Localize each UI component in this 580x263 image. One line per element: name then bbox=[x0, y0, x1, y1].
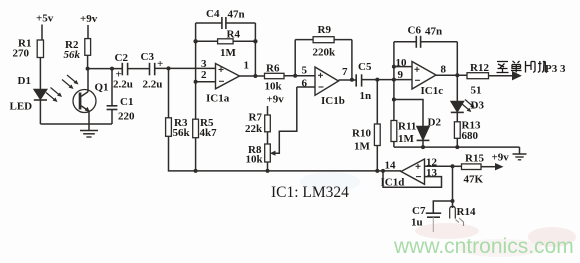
capacitor C5 bbox=[356, 74, 361, 86]
svg-text:D2: D2 bbox=[428, 117, 442, 129]
capacitor C6 bbox=[394, 36, 457, 48]
svg-text:D3: D3 bbox=[471, 100, 485, 112]
wire R6 to IC1b pin5 bbox=[284, 75, 315, 77]
wire R11 to lower rail bbox=[393, 142, 395, 148]
ground under Q1 bbox=[80, 124, 98, 137]
wire node to D3 bbox=[456, 75, 458, 101]
wire node to R10 bbox=[376, 80, 378, 124]
capacitor C2 bbox=[122, 63, 127, 76]
svg-text:R6: R6 bbox=[266, 63, 280, 75]
svg-text:C2: C2 bbox=[115, 52, 129, 64]
wire bottom-left rail bbox=[40, 123, 112, 125]
diode D1 (LED) bbox=[34, 90, 47, 101]
wire R9 left vertical bbox=[294, 40, 296, 76]
op-amp IC1d bbox=[401, 159, 425, 184]
svg-text:2: 2 bbox=[201, 69, 207, 81]
svg-text:Q1: Q1 bbox=[95, 82, 109, 94]
svg-text:R4: R4 bbox=[227, 29, 241, 41]
resistor R8 bbox=[265, 144, 271, 162]
wire pin6 step down to R8 bbox=[275, 87, 297, 153]
op-amp IC1a bbox=[216, 64, 240, 89]
svg-text:C1: C1 bbox=[120, 96, 133, 108]
resistor R9 bbox=[295, 37, 352, 43]
svg-text:IC1: LM324: IC1: LM324 bbox=[271, 184, 349, 201]
svg-text:D1: D1 bbox=[18, 75, 31, 87]
svg-text:7: 7 bbox=[342, 66, 348, 78]
wire IC1d pin12 input bbox=[425, 165, 453, 167]
wire R10 to bias rail bbox=[376, 146, 378, 171]
svg-text:47n: 47n bbox=[425, 26, 442, 38]
wire R2 to node A bbox=[87, 55, 89, 68]
wire feedback left vertical bbox=[195, 23, 197, 119]
wire IC1c output pin8 bbox=[436, 74, 467, 76]
svg-text:+9v: +9v bbox=[80, 13, 98, 25]
wire R13 to lower rail bbox=[456, 138, 458, 147]
resistor R12 bbox=[467, 73, 489, 79]
svg-text:C3: C3 bbox=[141, 51, 155, 63]
wire IC1c pin10 input bbox=[394, 66, 412, 68]
svg-text:2.2u: 2.2u bbox=[143, 79, 163, 91]
svg-text:+9v: +9v bbox=[492, 152, 510, 164]
wire IC1a output bbox=[240, 75, 265, 77]
wire R8 to bias rail bbox=[267, 162, 269, 171]
svg-text:10k: 10k bbox=[265, 81, 283, 93]
svg-text:47K: 47K bbox=[464, 174, 484, 186]
wire pin12 node down to C7/R14 bbox=[452, 166, 454, 208]
wire +5v stem bbox=[41, 25, 43, 41]
svg-text:C5: C5 bbox=[358, 61, 372, 73]
wire C6 right vertical bbox=[456, 42, 458, 75]
svg-text:R12: R12 bbox=[470, 62, 489, 74]
wire R9 right vertical bbox=[351, 40, 353, 80]
svg-text:1M: 1M bbox=[398, 133, 415, 145]
diode D2 bbox=[417, 127, 430, 148]
capacitor C7 bbox=[426, 213, 441, 232]
D3 emission arrows bbox=[462, 100, 475, 113]
svg-text:13: 13 bbox=[426, 167, 438, 179]
svg-text:680: 680 bbox=[462, 130, 479, 142]
wire D2 top rail bbox=[394, 100, 423, 127]
resistor R1 bbox=[37, 40, 43, 58]
svg-text:5: 5 bbox=[302, 65, 308, 77]
resistor R5 bbox=[193, 119, 199, 138]
svg-text:R11: R11 bbox=[398, 121, 416, 133]
wire R15 to +9v arrow bbox=[453, 163, 504, 170]
wire D3 to R13 bbox=[456, 112, 458, 121]
capacitor C1 bbox=[107, 69, 118, 124]
capacitor C3 bbox=[150, 63, 155, 76]
svg-text:+9v: +9v bbox=[267, 94, 285, 106]
svg-text:1: 1 bbox=[244, 60, 250, 72]
wire IC1d pin13 feedback loop bbox=[383, 171, 442, 187]
svg-text:IC1c: IC1c bbox=[421, 85, 444, 97]
svg-text:R9: R9 bbox=[318, 24, 332, 36]
wire R1 to D1 bbox=[39, 58, 41, 90]
resistor R11 bbox=[391, 121, 397, 142]
svg-text:IC1a: IC1a bbox=[206, 93, 230, 105]
svg-text:14: 14 bbox=[385, 160, 397, 172]
svg-text:9: 9 bbox=[398, 69, 404, 81]
svg-text:IC1d: IC1d bbox=[381, 177, 405, 189]
svg-text:270: 270 bbox=[13, 48, 30, 60]
wire R3 to bias rail bbox=[169, 136, 402, 171]
svg-text:56k: 56k bbox=[173, 127, 191, 139]
transistor Q1 photo arrows bbox=[62, 75, 79, 89]
svg-text:1M: 1M bbox=[220, 47, 237, 59]
scan color smudges bbox=[300, 172, 576, 257]
resistor R14 bbox=[450, 206, 464, 226]
R8 wiper arrow bbox=[270, 151, 276, 156]
wire C3 to IC1a pin3 bbox=[155, 67, 216, 69]
resistor R3 bbox=[166, 118, 172, 137]
diode D3 (LED) bbox=[451, 102, 464, 113]
wire C5 to IC1c pin9 bbox=[362, 79, 412, 81]
wire lower rail to ground bbox=[394, 146, 520, 148]
svg-text:R14: R14 bbox=[457, 206, 476, 218]
svg-text:1n: 1n bbox=[360, 90, 372, 102]
wire feedback right vertical bbox=[254, 23, 256, 76]
svg-text:+5v: +5v bbox=[36, 13, 54, 25]
svg-text:IC1b: IC1b bbox=[321, 95, 345, 107]
wire +9v stem bbox=[87, 25, 89, 39]
op-amp IC1c bbox=[412, 62, 436, 90]
LED D1 emission arrows bbox=[46, 88, 62, 103]
svg-text:4k7: 4k7 bbox=[200, 127, 218, 139]
resistor R7 bbox=[265, 115, 271, 132]
wire +9v stub to R7 bbox=[267, 106, 269, 115]
svg-text:2.2u: 2.2u bbox=[113, 79, 133, 91]
wire C7 branch bbox=[433, 201, 452, 213]
wire C2 to C3 bbox=[128, 68, 150, 70]
svg-text:C7: C7 bbox=[412, 205, 426, 217]
svg-text:6: 6 bbox=[302, 78, 308, 90]
wire D1 to bottom rail bbox=[39, 100, 41, 124]
svg-text:www.cntronics.com: www.cntronics.com bbox=[393, 235, 574, 258]
transistor Q1 bbox=[73, 69, 96, 124]
node label: to MCU P3.3 (chinese glyphs drawn) bbox=[497, 61, 548, 73]
svg-text:R10: R10 bbox=[352, 128, 371, 140]
resistor R15 bbox=[462, 164, 482, 170]
wire R12 to MCU arrow bbox=[489, 71, 522, 80]
wire C6 feedback left vertical bbox=[393, 42, 395, 121]
svg-text:+: + bbox=[157, 58, 163, 70]
wire IC1b pin6 input bbox=[297, 86, 315, 88]
resistor R6 bbox=[265, 73, 285, 78]
wire R7 to R8 bbox=[267, 132, 269, 144]
svg-text:C6: C6 bbox=[408, 25, 422, 37]
resistor R4 bbox=[196, 39, 256, 44]
resistor R10 bbox=[374, 124, 380, 146]
resistor R13 bbox=[454, 122, 460, 139]
capacitor C4 bbox=[196, 17, 256, 29]
svg-text:P3 3: P3 3 bbox=[545, 63, 566, 75]
svg-text:R7: R7 bbox=[249, 112, 263, 124]
wire main node row bbox=[88, 68, 123, 70]
svg-text:1M: 1M bbox=[354, 141, 371, 153]
svg-text:22k: 22k bbox=[245, 123, 263, 135]
wire node to R3 bbox=[168, 68, 170, 117]
svg-text:220k: 220k bbox=[313, 47, 337, 59]
svg-text:10: 10 bbox=[396, 57, 408, 69]
wire R5 to bias rail bbox=[195, 138, 197, 171]
svg-text:51: 51 bbox=[471, 85, 482, 97]
resistor R2 bbox=[85, 39, 91, 56]
svg-text:10k: 10k bbox=[246, 154, 264, 166]
svg-text:47n: 47n bbox=[228, 9, 245, 21]
wire pin2 input bbox=[196, 81, 217, 83]
svg-text:LED: LED bbox=[10, 101, 33, 113]
svg-text:R15: R15 bbox=[465, 153, 484, 165]
svg-text:1u: 1u bbox=[411, 217, 423, 229]
svg-text:C4: C4 bbox=[206, 8, 220, 20]
svg-text:8: 8 bbox=[441, 64, 447, 76]
op-amp IC1b bbox=[315, 67, 339, 95]
svg-text:56k: 56k bbox=[64, 49, 81, 61]
ground right bbox=[513, 147, 527, 160]
svg-text:220: 220 bbox=[118, 111, 135, 123]
wire IC1b output pin7 bbox=[339, 79, 357, 81]
